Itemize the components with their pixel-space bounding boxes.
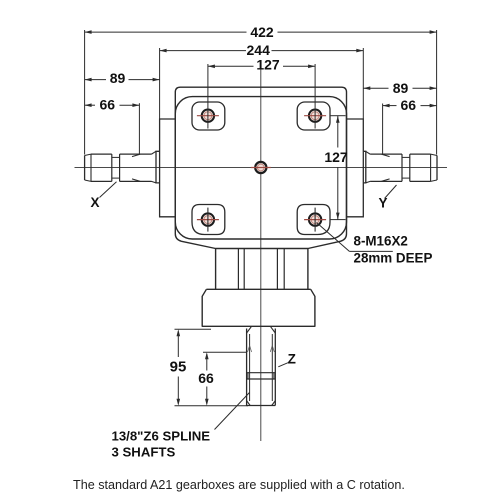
dimension 244 [160, 42, 364, 58]
svg-text:89: 89 [393, 80, 409, 96]
shaft Z bottom chamfers [247, 401, 276, 406]
right shaft boss face plate [363, 151, 366, 183]
svg-text:Z: Z [288, 352, 296, 367]
svg-text:66: 66 [100, 97, 116, 113]
dimension 66 left extension line [138, 103, 140, 154]
svg-text:13/8"Z6 SPLINE: 13/8"Z6 SPLINE [112, 429, 211, 444]
dimension 422 extension line left [84, 30, 86, 155]
output neck spline lines [238, 249, 284, 290]
svg-text:127: 127 [256, 56, 280, 72]
dimension 89 right [363, 80, 436, 96]
shaft Z circlip groove [247, 373, 276, 379]
left shaft boss face plate [156, 151, 160, 183]
leader from bottom-right bolt to thread note [317, 223, 393, 252]
output neck left edge [215, 249, 217, 290]
shaft Z left edge [246, 329, 248, 406]
bottom-right bolt pad [297, 205, 330, 235]
dimension 127 extension line left (through top-left bolt) [207, 64, 209, 129]
svg-text:28mm DEEP: 28mm DEEP [354, 250, 433, 265]
dimension 89 left [85, 70, 160, 86]
svg-text:66: 66 [198, 370, 214, 386]
svg-text:X: X [90, 195, 99, 210]
shaft Z top chamfers [247, 327, 276, 333]
collar top edge [206, 288, 310, 290]
shaft Y (right output shaft) [366, 151, 437, 183]
left side boss block [160, 119, 176, 217]
top-left bolt hole M16 with crosshair [197, 110, 219, 122]
svg-text:8-M16X2: 8-M16X2 [354, 233, 408, 248]
collar outline [202, 289, 315, 326]
label Y with leader [378, 185, 396, 211]
label X with leader [90, 182, 116, 210]
svg-text:Y: Y [378, 196, 387, 211]
svg-text:The standard A21 gearboxes are: The standard A21 gearboxes are supplied … [73, 478, 405, 492]
bottom-left bolt hole M16 with crosshair [197, 208, 219, 232]
bottom-left bolt pad [192, 205, 225, 235]
bottom-right bolt hole M16 with crosshair [304, 208, 326, 232]
svg-text:422: 422 [250, 24, 274, 40]
right side boss block [347, 119, 364, 217]
svg-text:95: 95 [170, 358, 187, 375]
top-right bolt pad [297, 102, 330, 130]
horizontal centerline through shafts X and Y [75, 167, 448, 169]
dimension 95 [170, 329, 187, 406]
dimension 244 extension line left [159, 48, 161, 119]
shaft X (left output shaft) [85, 151, 156, 183]
shaft Z right edge [274, 329, 276, 406]
top-right bolt hole M16 with crosshair [304, 110, 326, 122]
vertical centerline through body and shaft Z [260, 68, 262, 441]
dimension 95 reference line top [175, 328, 212, 330]
top-left bolt pad [192, 102, 225, 130]
dimension 127 vertical tick top [331, 115, 346, 117]
dimension 244 extension line right [362, 48, 364, 119]
dimension 127 top [208, 56, 315, 72]
leader from shaft Z to spline note [215, 393, 250, 430]
shaft Z spline root lines [250, 334, 273, 401]
dimension 127 vertical [324, 116, 348, 220]
dimension 66 bottom [198, 352, 214, 406]
shaft Z spline runout marks [248, 346, 275, 353]
label Z with leader [278, 352, 296, 367]
svg-text:66: 66 [401, 97, 417, 113]
shaft Z end face [247, 405, 276, 407]
svg-text:89: 89 [110, 70, 126, 86]
dimension 66 right extension line [382, 104, 384, 155]
svg-text:127: 127 [324, 149, 348, 165]
dimension 95 reference line bottom [175, 405, 249, 407]
center hole with crosshair [251, 162, 271, 173]
gearbox body outer outline with bottom chamfers [175, 87, 346, 248]
svg-text:3 SHAFTS: 3 SHAFTS [112, 444, 176, 459]
output neck right edge [307, 249, 309, 290]
machined flange face (inner rounded square) [175, 97, 346, 239]
dimension 422 extension line right [436, 30, 438, 155]
dimension 66 left [85, 97, 140, 113]
dimension 66 right [383, 97, 437, 113]
dimension 127 vertical tick bottom [331, 219, 346, 221]
dimension 127 extension line right (through top-right bolt) [314, 64, 316, 129]
dimension 66 bottom reference line top [203, 351, 247, 353]
dimension 422 [85, 24, 437, 40]
